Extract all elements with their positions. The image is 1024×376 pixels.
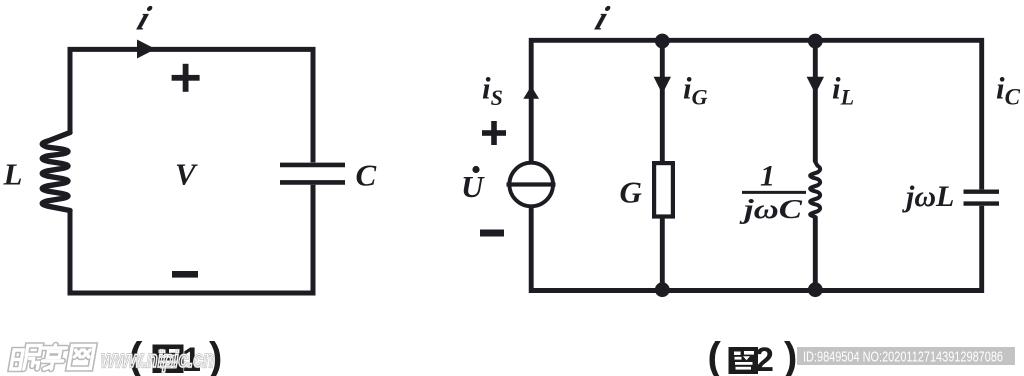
svg-text:jωL: jωL <box>902 180 954 213</box>
svg-text:G: G <box>620 174 643 209</box>
svg-text:(: ( <box>708 335 722 376</box>
svg-text:V: V <box>175 157 198 192</box>
svg-text:C: C <box>356 158 377 193</box>
svg-text:): ) <box>784 335 797 376</box>
svg-text:U: U <box>461 169 485 204</box>
svg-text:jωC: jωC <box>739 194 803 224</box>
svg-text:ID:9849504 NO:2020112714391298: ID:9849504 NO:20201127143912987086 <box>803 350 1003 366</box>
svg-text:L: L <box>3 157 23 192</box>
svg-text:1: 1 <box>760 160 775 193</box>
